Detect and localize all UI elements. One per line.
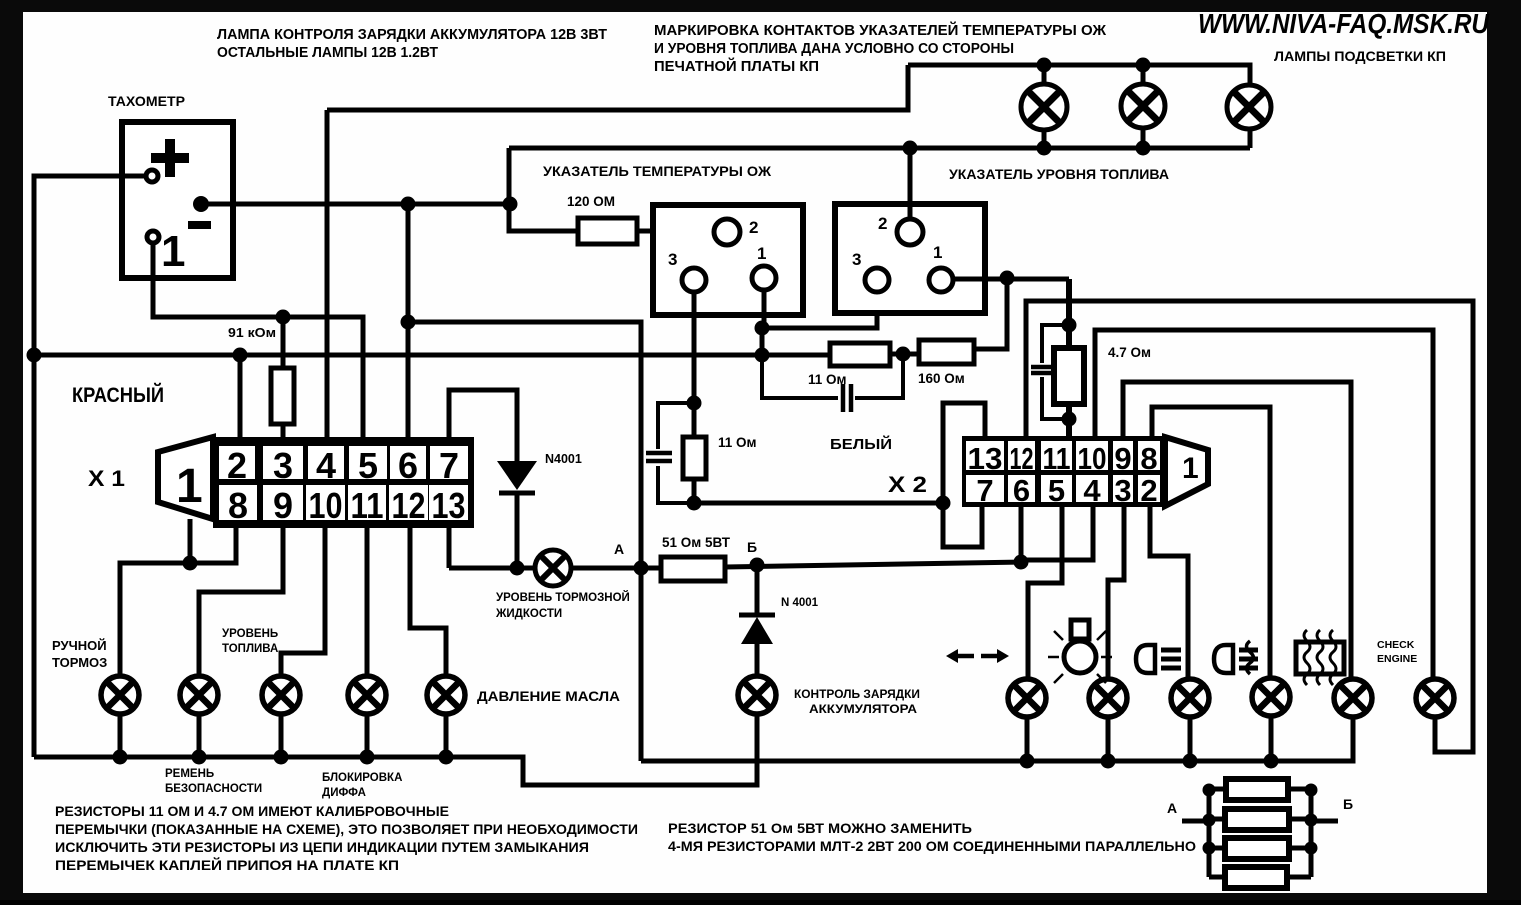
resistor MLT-2 200 Ohm #4 [1209,867,1311,888]
svg-text:ПЕРЕМЫЧЕК КАПЛЕЙ ПРИПОЯ НА ПЛА: ПЕРЕМЫЧЕК КАПЛЕЙ ПРИПОЯ НА ПЛАТЕ КП [55,856,399,873]
temp gauge terminal 3 [668,250,706,292]
wire X2 pin4 link [1021,507,1093,560]
wire backlight rail to fuel term2 [908,148,913,219]
svg-text:ТОРМОЗ: ТОРМОЗ [52,655,107,670]
X2 pin 12 cell [1008,441,1035,476]
white bus (y=503) [694,501,943,506]
svg-text:11 Ом: 11 Ом [718,435,757,450]
backlight top rail [908,65,1250,85]
svg-text:ИСКЛЮЧИТЬ ЭТИ РЕЗИСТОРЫ ИЗ ЦЕП: ИСКЛЮЧИТЬ ЭТИ РЕЗИСТОРЫ ИЗ ЦЕПИ ИНДИКАЦИ… [55,839,589,855]
lamp ground stub right [1025,717,1030,761]
wire temp term3 to 11 Ohm [692,292,697,437]
svg-text:КРАСНЫЙ: КРАСНЫЙ [72,383,164,407]
svg-text:7: 7 [976,473,993,508]
svg-text:120 ОМ: 120 ОМ [567,194,615,209]
wire temp term1 down [762,290,767,328]
svg-text:8: 8 [228,485,248,526]
junction left rail / red bus [27,348,42,363]
svg-text:N 4001: N 4001 [781,597,819,609]
resistor 11 Ohm (vertical) [683,437,706,479]
resistor MLT-2 200 Ohm #2 [1209,809,1311,830]
svg-text:ОСТАЛЬНЫЕ ЛАМПЫ 12В 1.2ВТ: ОСТАЛЬНЫЕ ЛАМПЫ 12В 1.2ВТ [217,45,438,61]
X2 pin 11 cell [1041,441,1072,476]
svg-text:1: 1 [933,243,942,262]
backlight lamp 2 [1121,84,1165,128]
resistor 91 kOhm [271,368,294,424]
resistor 4.7 Ohm [1054,348,1084,404]
svg-text:А: А [614,541,624,557]
X1 pin 2 cell [219,445,255,486]
X1 pin 10 cell [306,485,345,526]
svg-text:РУЧНОЙ: РУЧНОЙ [52,638,107,653]
wire 51 Ohm to X2 pin6 [725,562,1021,567]
svg-text:ЖИДКОСТИ: ЖИДКОСТИ [495,608,562,620]
junction bottom rail fuel feed [903,141,918,156]
svg-text:АККУМУЛЯТОРА: АККУМУЛЯТОРА [809,704,917,716]
svg-text:4.7 Ом: 4.7 Ом [1108,345,1151,360]
wire fuel term1 feed [954,277,1069,282]
junction diode1 / lamp wire [510,561,525,576]
temp gauge terminal 2 [714,218,758,245]
calibration jumper (4.7 Ohm) [1031,325,1069,419]
junction resistor bank [1203,814,1216,827]
svg-text:5: 5 [358,445,378,486]
red bus 12V (y=355) [34,353,830,358]
wire X2 pin9 loop to defroster lamp [1123,382,1351,680]
svg-text:ЛАМПЫ ПОДСВЕТКИ КП: ЛАМПЫ ПОДСВЕТКИ КП [1274,49,1446,64]
svg-text:11 Ом: 11 Ом [808,372,847,387]
wire X1 pin10 to fuel-level lamp [281,522,325,676]
svg-text:9: 9 [273,485,293,526]
junction jumper 11 Ohm h [896,347,911,362]
svg-text:МАРКИРОВКА КОНТАКТОВ УКАЗАТЕЛЕ: МАРКИРОВКА КОНТАКТОВ УКАЗАТЕЛЕЙ ТЕМПЕРАТ… [654,21,1107,39]
junction white bus / X2 [936,496,951,511]
junction jumper 4.7 Ohm [1062,318,1077,333]
wire 120 Ohm to temp gauge pin 2 [637,229,714,234]
connector X2 body [962,436,1208,507]
svg-text:1: 1 [176,460,203,513]
X1 pin 13 cell [429,485,468,526]
junction ground bus [192,750,207,765]
svg-text:2: 2 [878,214,887,233]
svg-text:ТАХОМЕТР: ТАХОМЕТР [108,94,185,109]
svg-text:160 Ом: 160 Ом [918,371,965,386]
wire 4.7 Ohm to X2 pin11 [1066,404,1072,436]
junction tach wire / gauge feed [503,197,518,212]
svg-text:13: 13 [432,485,466,526]
svg-text:БЛОКИРОВКА: БЛОКИРОВКА [322,772,402,784]
svg-text:ТОПЛИВА: ТОПЛИВА [222,643,278,655]
tachometer minus sign [188,221,211,229]
svg-text:8: 8 [1140,441,1157,476]
X2 pin 6 cell [1008,473,1035,508]
junction bottom rail lamp2 [1136,141,1151,156]
svg-text:WWW.NIVA-FAQ.MSK.RU: WWW.NIVA-FAQ.MSK.RU [1198,8,1490,39]
red bus segment [890,352,919,357]
ground bus bottom left [34,713,757,785]
svg-text:2: 2 [749,218,758,237]
diode N4001 (brake fluid) [497,461,537,568]
svg-text:2: 2 [1140,473,1157,508]
wire X1 pin2 drop [238,355,243,438]
wire 11 Ohm to white bus [692,479,697,503]
X1 pin 7 cell [430,445,468,486]
wire X1 pin4 drop [325,110,330,438]
junction ground bus [113,750,128,765]
lamp brake fluid level [535,550,571,586]
svg-text:51 Ом 5ВТ: 51 Ом 5ВТ [662,535,731,550]
lamp ground stub right [1106,717,1111,761]
backlight bottom rail [509,129,1250,148]
lamp ground stub [365,714,370,757]
junction A-line / lamp wire [634,561,649,576]
wire node A (bank) [1182,819,1209,824]
svg-text:1: 1 [1182,452,1199,485]
junction 91k branch [276,310,291,325]
junction resistor bank [1305,784,1318,797]
icon exterior light bulb [1048,620,1112,683]
junction right ground bus [1020,754,1035,769]
resistor MLT-2 200 Ohm #3 [1209,838,1311,859]
lamp rear defroster [1334,679,1372,717]
junction top rail lamp2 [1136,58,1151,73]
lamp oil pressure [427,676,465,714]
wire X1 pin1 drop [188,519,193,563]
icon front fog light [1214,641,1258,674]
svg-text:1: 1 [757,244,766,263]
right ground bus [641,717,1353,761]
equivalent resistor bank rails [1209,790,1311,877]
wire X2 pin13 loop [943,403,985,503]
lamp ground stub [197,714,202,757]
fuel gauge terminal 3 [852,250,889,292]
svg-text:КОНТРОЛЬ ЗАРЯДКИ: КОНТРОЛЬ ЗАРЯДКИ [794,689,920,701]
tachometer plus sign [151,139,189,177]
icon high beam [1136,645,1181,673]
tachometer output terminal [193,196,209,212]
wire X2 pin10 loop to check-lamp top [1095,330,1433,679]
svg-text:ENGINE: ENGINE [1377,653,1417,665]
wire to brake fluid lamp [449,566,534,571]
junction resistor bank [1305,842,1318,855]
junction ground bus [439,750,454,765]
diode N4001 (charge control) [739,615,775,677]
wire X1 pin8 to handbrake lamp [120,522,236,676]
svg-text:4: 4 [1083,473,1101,508]
svg-text:3: 3 [668,250,677,269]
svg-text:9: 9 [1114,441,1131,476]
junction ground bus [274,750,289,765]
junction resistor bank [1203,842,1216,855]
svg-text:11: 11 [351,485,384,526]
fuel gauge terminal 2 [878,214,923,245]
lamp fog light [1252,678,1290,716]
svg-text:12: 12 [1010,441,1034,476]
X2 pin 9 cell [1113,441,1133,476]
X1 pin 11 cell [348,485,386,526]
X1 pin 6 cell [390,445,426,486]
wire tach term1 to X1 pin5 [153,243,363,438]
resistor 160 Ohm [919,340,974,364]
lamp charge control [738,676,776,714]
svg-text:91 кОм: 91 кОм [228,326,276,340]
svg-text:5: 5 [1048,473,1065,508]
junction 11 Ohm out [687,496,702,511]
resistor 120 Ohm [578,218,637,244]
svg-text:X 1: X 1 [88,466,125,491]
fuel gauge terminal 1 [929,243,953,292]
resistor MLT-2 200 Ohm #1 [1209,779,1311,800]
wire X2 pin3 to light lamp [1108,507,1124,679]
wire lamp to A node [571,566,661,571]
svg-text:3: 3 [1114,473,1131,508]
svg-text:X 2: X 2 [888,472,927,497]
X1 pin 5 cell [349,445,387,486]
wire lamp rail to 120 Ohm [509,148,578,231]
junction resistor bank [1305,814,1318,827]
wire X2 pin2 to beam lamp [1150,507,1188,679]
svg-text:7: 7 [439,445,459,486]
svg-text:РЕЗИСТОР 51 Ом 5ВТ МОЖНО ЗАМ: РЕЗИСТОР 51 Ом 5ВТ МОЖНО ЗАМЕНИТЬ [668,820,972,836]
junction red bus / pin2 [233,348,248,363]
wire X1 pin13 to brake-fluid line [447,522,452,568]
wire X1 pin12 to oil lamp [410,522,446,676]
junction temp1/fuel3 [755,321,770,336]
svg-text:Б: Б [1343,796,1353,812]
wire X2 pin6 stub [1019,507,1024,562]
lamp check engine [1416,679,1454,717]
tachometer terminal 1 [147,231,159,243]
lamp exterior light [1089,679,1127,717]
wire X1 pin6 drop [406,204,411,438]
X1 pin 9 cell [263,485,303,526]
X1 pin 8 cell [219,485,257,526]
svg-text:3: 3 [273,445,293,486]
junction bottom rail lamp1 [1037,141,1052,156]
svg-text:Б: Б [747,539,757,555]
junction tach wire / X1 pin6 drop [401,197,416,212]
svg-text:6: 6 [1013,473,1030,508]
svg-text:А: А [1167,800,1177,816]
wire X1 pin9 to belt lamp [199,522,283,676]
check lamp bottom stub [1433,717,1438,752]
svg-text:ДАВЛЕНИЕ МАСЛА: ДАВЛЕНИЕ МАСЛА [477,688,620,704]
wire temp1 to red bus [760,328,765,355]
svg-text:6: 6 [398,445,418,486]
junction jumper 11 Ohm v [687,396,702,411]
resistor 11 Ohm (horizontal) [830,343,890,366]
lamp high beam [1171,679,1209,717]
junction jumper out [1062,412,1077,427]
backlight lamp1 stubs [1042,65,1047,148]
junction right ground bus [1101,754,1116,769]
X2 pin 7 cell [966,473,1004,508]
X1 pin 12 cell [389,485,428,526]
calibration jumper (vertical 11 Ohm) [646,403,694,503]
junction pin6 drop / A-line [401,315,416,330]
calibration jumper (horizontal 11 Ohm) [762,354,903,412]
svg-text:УРОВЕНЬ: УРОВЕНЬ [222,628,278,640]
fuel gauge box [835,204,985,313]
svg-text:10: 10 [1078,441,1107,476]
svg-text:CHECK: CHECK [1377,639,1415,651]
junction pin1/pin8 [183,556,198,571]
svg-text:4-МЯ РЕЗИСТОРАМИ МЛТ-2 2ВТ 200: 4-МЯ РЕЗИСТОРАМИ МЛТ-2 2ВТ 200 ОМ СОЕДИН… [668,838,1196,854]
X2 pin 10 cell [1076,441,1108,476]
junction X2 pin6 / 51 Ohm line [1014,555,1029,570]
tachometer terminal + [146,170,158,182]
X2 pin 4 cell [1076,473,1108,508]
wire X2 pin7 link [943,503,982,547]
junction resistor bank [1203,784,1216,797]
junction right ground bus [1183,754,1198,769]
svg-text:12: 12 [392,485,426,526]
svg-text:РЕМЕНЬ: РЕМЕНЬ [165,768,214,780]
junction node B / diode2 [750,558,765,573]
wire 91k to X1 pin3 [281,424,286,438]
X2 pin 2 cell [1138,473,1160,508]
wire fuel1 down to 4.7 Ohm [1066,279,1072,348]
temp gauge box [653,205,803,315]
svg-text:БЕЗОПАСНОСТИ: БЕЗОПАСНОСТИ [165,783,262,795]
resistor 51 Ohm 5W [661,557,725,581]
svg-text:10: 10 [309,485,343,526]
junction right ground bus [1264,754,1279,769]
lamp ground stub [118,714,123,757]
temp gauge terminal 1 [752,244,776,290]
svg-text:N4001: N4001 [545,452,582,466]
junction red bus / temp1 [755,348,770,363]
svg-text:ЛАМПА КОНТРОЛЯ ЗАРЯДКИ АККУМУЛ: ЛАМПА КОНТРОЛЯ ЗАРЯДКИ АККУМУЛЯТОРА 12В … [217,27,607,43]
wire X1 pin7 to diode N4001 [449,390,517,461]
wire X2 pin8 loop to fog lamp [1152,407,1270,677]
lamp ground stub [444,714,449,757]
wire 160 Ohm up to fuel line [974,278,1007,349]
tachometer box [122,122,233,278]
lamp ground stub [279,714,284,757]
wire tach+ to left rail [34,176,146,757]
svg-text:УРОВЕНЬ ТОРМОЗНОЙ: УРОВЕНЬ ТОРМОЗНОЙ [496,591,630,604]
svg-text:1: 1 [161,227,185,276]
lamp ground stub right [1269,717,1274,761]
X1 pin 4 cell [308,445,344,486]
wire to 91k [281,317,286,368]
icon turn signal arrows [946,649,1009,663]
lamp ground stub right [1188,717,1193,761]
lamp fuel level [262,676,300,714]
junction ground bus [360,750,375,765]
wire pin6-A-line down [408,322,641,761]
lamp turn signals [1008,679,1046,717]
X2 pin 8 cell [1138,441,1160,476]
svg-text:ПЕРЕМЫЧКИ (ПОКАЗАННЫЕ НА СХЕМЕ: ПЕРЕМЫЧКИ (ПОКАЗАННЫЕ НА СХЕМЕ), ЭТО ПОЗ… [55,821,638,837]
wire X2 pin5 to turn lamp [1028,507,1062,679]
svg-text:ДИФФА: ДИФФА [322,787,366,799]
svg-text:13: 13 [968,441,1003,476]
svg-text:И УРОВНЯ ТОПЛИВА ДАНА УСЛОВНО: И УРОВНЯ ТОПЛИВА ДАНА УСЛОВНО СО СТОРОНЫ [654,41,1014,57]
icon rear window defroster [1296,630,1344,685]
svg-text:УКАЗАТЕЛЬ ТЕМПЕРАТУРЫ ОЖ: УКАЗАТЕЛЬ ТЕМПЕРАТУРЫ ОЖ [543,164,772,179]
svg-text:2: 2 [227,445,247,486]
wire X1 pin11 to diff-lock lamp [365,522,370,676]
X2 pin 5 cell [1041,473,1072,508]
X2 pin 3 cell [1113,473,1133,508]
svg-text:3: 3 [852,250,861,269]
wire top link to lamp rail [327,65,908,110]
backlight lamp 3 [1227,85,1271,129]
wire to fuel gauge terminal 3 [762,293,877,328]
svg-text:УКАЗАТЕЛЬ УРОВНЯ ТОПЛИВА: УКАЗАТЕЛЬ УРОВНЯ ТОПЛИВА [949,167,1169,182]
X1 pin 3 cell [263,445,303,486]
svg-text:ПЕЧАТНОЙ ПЛАТЫ КП: ПЕЧАТНОЙ ПЛАТЫ КП [654,57,819,75]
X2 pin 13 cell [966,441,1004,476]
lamp diff lock [348,676,386,714]
junction 160 Ohm / fuel1 [1000,271,1015,286]
backlight lamp2 stubs [1141,65,1146,148]
svg-text:РЕЗИСТОРЫ 11 ОМ И 4.7 ОМ ИМЕЮТ: РЕЗИСТОРЫ 11 ОМ И 4.7 ОМ ИМЕЮТ КАЛИБРОВО… [55,803,449,819]
svg-text:11: 11 [1043,441,1071,476]
wire X2 pin12 outer loop to check-lamp bottom [1026,301,1473,752]
lamp handbrake [101,676,139,714]
backlight lamp 1 [1021,84,1067,130]
connector X1 body [158,437,474,528]
wire node B to diode2 [755,565,760,613]
wire node B (bank) [1311,819,1338,824]
junction top rail lamp1 [1037,58,1052,73]
wire tach output [208,202,510,207]
lamp seat belt [180,676,218,714]
svg-text:4: 4 [316,445,336,486]
svg-text:БЕЛЫЙ: БЕЛЫЙ [830,435,892,453]
